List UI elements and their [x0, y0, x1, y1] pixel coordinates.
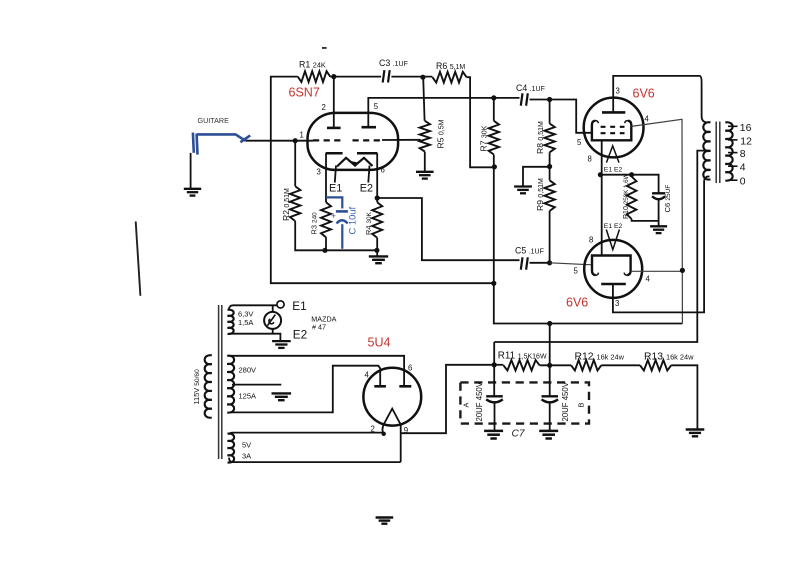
ground R5 [416, 171, 434, 173]
capacitor C3 [383, 70, 385, 82]
5U4 plate bar left [374, 385, 386, 388]
svg-text:4: 4 [645, 115, 650, 124]
svg-text:4: 4 [365, 371, 370, 380]
wire 5V top lead [229, 433, 384, 435]
node dot R11 right [547, 363, 552, 368]
wire R11 left stub [494, 364, 503, 366]
6SN7 cathode bar left [326, 152, 343, 155]
svg-text:20UF 450V: 20UF 450V [561, 381, 570, 421]
svg-text:3: 3 [615, 299, 619, 308]
svg-text:# 47: # 47 [312, 323, 326, 332]
wire R1 to C3 with plate tap [330, 76, 381, 78]
OT primary winding [703, 122, 710, 179]
svg-text:B: B [576, 403, 585, 408]
pilot lamp MAZDA [264, 312, 281, 329]
svg-text:GUITARE: GUITARE [198, 116, 230, 125]
wire C3 to R6 [391, 76, 432, 78]
svg-text:C 10uf: C 10uf [346, 206, 357, 234]
wire pin3 lower to OT primary bottom [613, 176, 710, 312]
capacitor C6 [652, 192, 665, 194]
svg-text:0: 0 [740, 177, 746, 188]
ground jack [184, 188, 201, 190]
node dot R7 top [491, 95, 496, 100]
svg-text:6,3V: 6,3V [238, 310, 253, 319]
wire R2 bottom [295, 221, 377, 250]
6SN7 heater leg E2 [368, 166, 369, 183]
wire R13 to ground [671, 365, 697, 429]
svg-text:6: 6 [408, 364, 412, 373]
tube 6SN7 envelope [308, 113, 399, 170]
svg-text:R3 240: R3 240 [310, 212, 319, 235]
node dot R2 top [293, 138, 298, 143]
svg-text:R12 16k 24w: R12 16k 24w [575, 351, 625, 362]
6V6 upper plate bar [602, 111, 625, 114]
ground center tap (floating) [272, 392, 292, 394]
svg-text:5V: 5V [242, 440, 251, 449]
wire R8 top [549, 100, 551, 124]
wire cathode bus upper [601, 140, 603, 255]
svg-text:4: 4 [646, 275, 651, 284]
svg-text:6SN7: 6SN7 [289, 86, 320, 100]
capacitor C5 [521, 257, 523, 269]
ground cap A [484, 430, 503, 433]
svg-text:E1: E1 [329, 182, 342, 194]
wire jack sleeve to ground [190, 153, 192, 188]
6V6 lower beam box [592, 256, 631, 276]
ground cap B [539, 430, 558, 433]
node dot R10 top [629, 172, 634, 177]
wire pin5line to C4 [494, 97, 520, 99]
6V6 lower heater [606, 230, 619, 250]
lamp top stub [272, 305, 274, 312]
wire cathode to R10 C6 [600, 175, 658, 193]
wire R11left up to CT line [493, 342, 495, 365]
stray line [136, 221, 141, 295]
C7 dashed box [460, 382, 589, 423]
6V6 upper heater [606, 146, 619, 163]
dot filament left end [382, 432, 386, 436]
svg-text:+: + [331, 211, 336, 220]
wire cathode to R3 [325, 153, 327, 202]
tube 6V6 lower envelope [584, 240, 642, 298]
wire B+ box: left vertical and bottom [271, 77, 494, 284]
6V6 upper grid dashes [601, 127, 625, 133]
node dot R8 top [547, 97, 552, 102]
resistor R9 [544, 180, 554, 211]
5U4 plate bar right [399, 385, 411, 388]
node dot R3 bottom [322, 248, 327, 253]
floating ground [376, 516, 394, 518]
wire R4 bottom to ground [376, 238, 378, 256]
PT 5V winding [228, 434, 235, 463]
wire R5 to ground [424, 152, 426, 172]
ground R8R9 [514, 185, 532, 187]
wire cathode2 to R4 [376, 153, 378, 202]
node dot R1 right / pin2 tap [331, 74, 336, 79]
svg-text:E1 E2: E1 E2 [604, 166, 623, 173]
svg-text:1,5A: 1,5A [238, 318, 253, 327]
wire R8 bottom to R9 [549, 152, 551, 180]
wire cap A riser [493, 365, 495, 396]
node dot C5 grid [547, 260, 552, 265]
capacitor C7-B [542, 395, 559, 397]
node dot screen line [547, 321, 552, 326]
resistor R8 [544, 124, 554, 153]
lamp bottom stub [272, 329, 274, 334]
wire grid line to R5 [382, 139, 421, 141]
svg-text:E2: E2 [293, 327, 307, 341]
node dot C3-R6 / R5 tap [420, 75, 425, 80]
svg-text:R10 250K 1,6W: R10 250K 1,6W [623, 173, 630, 219]
svg-text:E1 E2: E1 E2 [604, 223, 623, 230]
PT 6.3V winding [228, 310, 234, 334]
OT secondary winding [725, 122, 732, 180]
6SN7 cathode bar right [357, 152, 377, 155]
capacitor C4 [521, 93, 523, 105]
wire R11 right to R12 [540, 364, 572, 366]
wire B+ from rectifier [401, 365, 495, 433]
wire R4 top tap to C5 [377, 198, 519, 260]
OT core [715, 122, 717, 184]
6SN7 heater zigzag [337, 158, 373, 167]
wire 6.3V bottom lead [229, 334, 280, 341]
wire C5 right to node [530, 262, 550, 264]
svg-text:E1: E1 [292, 299, 306, 313]
resistor R12 [571, 360, 601, 370]
svg-text:3: 3 [317, 168, 321, 177]
wire pin4 upper to screen bus [631, 119, 682, 323]
node dot R6/R7 junction [492, 164, 497, 169]
svg-text:12: 12 [740, 136, 752, 147]
OT taps [728, 126, 738, 180]
svg-text:R1 24K: R1 24K [299, 60, 326, 70]
wire R6 right down to R7 bottom [467, 77, 495, 167]
svg-text:8: 8 [740, 149, 746, 160]
wire R3 bottom [325, 237, 327, 250]
wire jack to 6SN7 grid pin1 [246, 140, 313, 142]
wire screen feed vertical [549, 324, 551, 366]
wire mid to ground [523, 167, 550, 186]
6SN7 grid dashes [313, 139, 382, 141]
6SN7 plate bar pin2 [327, 127, 341, 130]
wire cap B to ground [549, 403, 551, 431]
wire 280V bottom to pin4 [230, 366, 380, 413]
OT center tap wire B+ [494, 151, 710, 342]
node dot R11 left [492, 362, 497, 367]
svg-text:16: 16 [740, 123, 752, 134]
tube 6V6 upper envelope [584, 98, 644, 158]
ground R10 C6 [650, 225, 667, 227]
svg-text:125A: 125A [239, 392, 257, 401]
wire grid lower 6V6 [550, 263, 592, 265]
wire R10 C6 bottom [632, 200, 659, 226]
svg-text:E2: E2 [360, 182, 373, 194]
resistor R6 [432, 72, 466, 83]
svg-text:C7: C7 [512, 429, 525, 440]
svg-text:6V6: 6V6 [566, 296, 588, 310]
PT core [218, 305, 220, 459]
svg-text:3A: 3A [242, 451, 251, 460]
svg-text:4: 4 [740, 163, 746, 174]
node dot screen bus [680, 268, 685, 273]
node dot at box bottom right [491, 281, 496, 286]
6V6 upper beam box [592, 121, 631, 141]
svg-text:115V 50/60: 115V 50/60 [192, 369, 201, 405]
6V6 lower plate bar [601, 283, 626, 286]
wire pin5 riser and out [368, 98, 494, 127]
wire 6.3V top lead [229, 305, 277, 310]
wire R2 top [294, 141, 296, 187]
wire R7 column [494, 98, 683, 324]
node dot cathode junction [598, 172, 603, 177]
PT primary winding [205, 355, 212, 418]
svg-text:280V: 280V [239, 365, 257, 374]
wire cap B riser [549, 365, 551, 396]
svg-text:2: 2 [322, 103, 326, 112]
resistor R5 [420, 121, 430, 152]
svg-text:5U4: 5U4 [368, 336, 391, 350]
wire pin3 to OT primary top [613, 76, 706, 123]
resistor R2 [290, 186, 300, 221]
wire 280V top to pin6 [230, 356, 404, 387]
ground 6SN7 cathode [369, 255, 388, 257]
node dot R4 bottom [374, 248, 379, 253]
ground R13 [686, 428, 705, 430]
svg-text:R13 16k 24w: R13 16k 24w [644, 351, 694, 362]
svg-text:5: 5 [577, 138, 582, 147]
capacitor C7-A [486, 395, 503, 397]
6SN7 heater leg E1 [335, 166, 336, 183]
capacitor C 10uf (blue) [326, 197, 348, 248]
svg-text:C6 25UF: C6 25UF [663, 185, 672, 213]
5U4 filament [382, 409, 400, 462]
svg-text:3: 3 [616, 87, 620, 96]
svg-text:8: 8 [589, 236, 593, 245]
resistor R7 [489, 121, 499, 155]
svg-text:5: 5 [374, 102, 379, 111]
6SN7 plate bar pin5 [362, 126, 377, 129]
wire 280V center tap [232, 384, 281, 386]
PT 280V winding [227, 356, 234, 413]
wire 5V bottom lead [229, 458, 401, 463]
svg-text:6V6: 6V6 [633, 87, 655, 101]
wire C4 to 6V6 grid [530, 100, 593, 133]
node dot R8-R9 mid [547, 164, 552, 169]
E1 terminal circle [277, 301, 284, 308]
svg-text:8: 8 [588, 155, 592, 164]
wire pin2 riser [333, 77, 335, 128]
svg-text:20UF 450V: 20UF 450V [475, 381, 484, 421]
resistor R13 [640, 360, 671, 370]
svg-text:6: 6 [381, 166, 385, 175]
resistor R10 [627, 177, 637, 220]
svg-text:5: 5 [574, 267, 579, 276]
wire cap A to ground [494, 403, 496, 431]
resistor R4 [372, 202, 382, 238]
wire R12 to R13 [601, 364, 640, 366]
wire pin4 lower to screen bus [631, 270, 683, 272]
svg-text:1: 1 [300, 131, 304, 140]
wire top node to R5 [423, 77, 424, 121]
resistor R3 [321, 202, 331, 237]
resistor R1 [298, 71, 330, 82]
tube 5U4 envelope [363, 368, 421, 426]
node dot R4 top [375, 195, 380, 200]
tiny mark above R1 [322, 47, 327, 49]
ground heater [272, 340, 291, 342]
resistor R11 [503, 360, 539, 370]
svg-text:A: A [462, 403, 471, 408]
svg-text:R4 30K: R4 30K [364, 211, 373, 235]
guitar jack (blue) [193, 133, 250, 155]
wire R9 bottom to C5 node [549, 211, 551, 263]
